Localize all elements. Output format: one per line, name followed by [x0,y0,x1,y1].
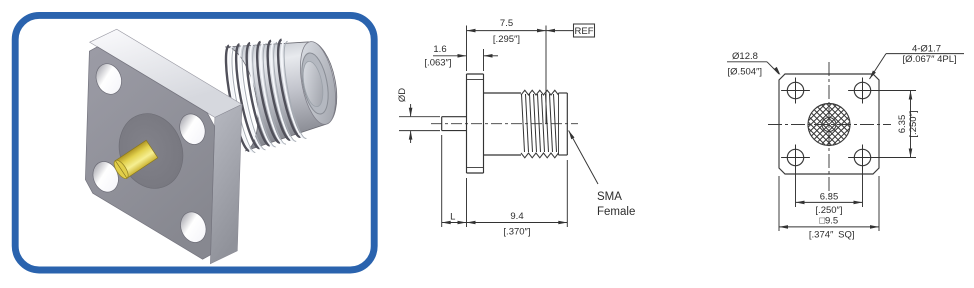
right 6.35 dim [873,90,917,92]
body outline [484,92,522,94]
svg-text:9.4: 9.4 [510,211,523,222]
side view group [397,18,635,238]
3D connector picture group [85,29,341,264]
flange square outline [779,74,879,174]
barrel thread ribs [226,46,249,151]
centerlines [828,62,830,200]
flange right bevel face [210,104,242,263]
threaded barrel body [225,42,337,151]
centerline [431,123,578,125]
svg-text:[.370″]: [.370″] [503,227,530,238]
thread profile [521,90,559,95]
bottom 6.35 dim [795,171,797,208]
knurled center circle [808,104,850,146]
svg-text:Ø12.8: Ø12.8 [732,51,758,62]
mounting holes [787,82,803,98]
thread flank lines [522,94,525,152]
thread end section [559,92,568,94]
svg-text:ØD: ØD [397,88,408,102]
svg-text:[.295″]: [.295″] [493,34,520,45]
dim L and 9.4 [441,135,443,227]
svg-text:7.5: 7.5 [500,18,513,29]
svg-text:[.063″]: [.063″] [424,58,451,69]
blue rounded border frame [15,15,374,270]
svg-text:1.6: 1.6 [433,44,446,55]
svg-text:REF: REF [575,26,594,37]
dim 1.6 [483,49,485,71]
dim 7.5 REF [466,26,468,72]
OD extension lines [399,116,440,118]
OD dimension arrows [410,104,412,116]
yellow center pin [111,140,157,181]
svg-text:[.250″]: [.250″] [815,205,842,216]
svg-text:□9.5: □9.5 [819,216,838,227]
SMA Female leader [569,131,598,185]
svg-text:L: L [450,212,455,223]
flange front face [85,47,214,259]
front view group [727,44,964,241]
REF box [574,24,595,37]
barrel back cap face [294,39,341,128]
bottom 9.5 sq dim [778,176,780,231]
svg-text:[Ø.067″ 4PL]: [Ø.067″ 4PL] [903,54,957,65]
pin outline [442,116,467,118]
svg-text:4-Ø1.7: 4-Ø1.7 [912,44,941,55]
svg-text:SMA: SMA [597,191,622,203]
svg-text:[.250″]: [.250″] [908,110,919,137]
svg-text:[Ø.504″]: [Ø.504″] [728,67,763,78]
svg-text:6.35: 6.35 [897,115,908,134]
svg-text:6.35: 6.35 [820,192,839,203]
center boss recess [109,105,192,197]
flange mounting holes (3D) [92,60,126,98]
svg-text:[.374″ SQ]: [.374″ SQ] [809,229,855,240]
svg-text:Female: Female [597,206,635,218]
flange outline [466,74,468,173]
flange top bevel face [90,29,242,117]
